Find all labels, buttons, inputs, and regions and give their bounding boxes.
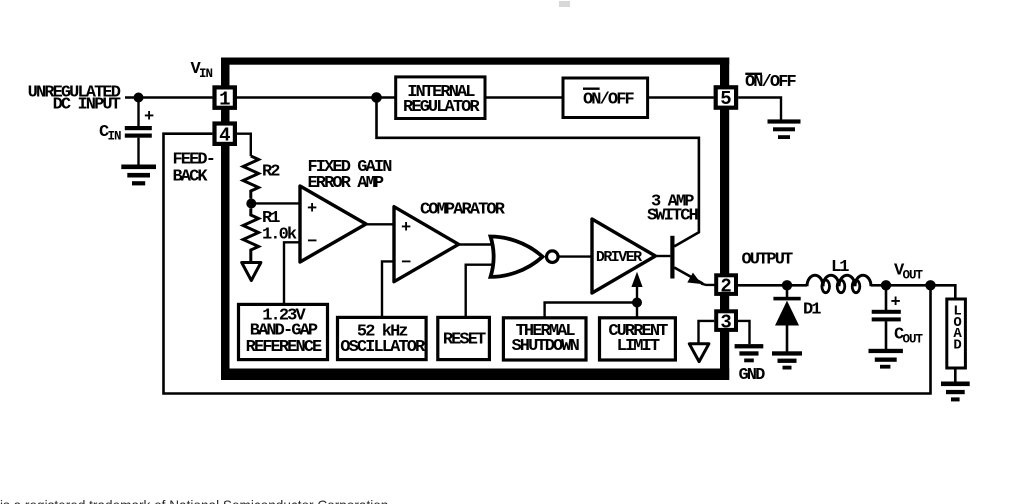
wire: on/off box to pin 5 [648, 96, 714, 98]
transistor Q1 3 amp switch [655, 236, 714, 285]
ground under load [941, 382, 970, 402]
wire: vin feed to switch collector [377, 98, 699, 247]
wire: error amp - input from bandgap [284, 242, 300, 304]
label OUTPUT [742, 250, 794, 269]
wire rail to feedback node [886, 284, 931, 287]
svg-text:2: 2 [720, 275, 731, 297]
bottom cut-off footnote text [0, 498, 388, 504]
ground at pin5 [768, 119, 801, 139]
label ON/OFF (external) [745, 73, 797, 92]
node: cout junction [881, 280, 891, 290]
capacitor CIN [125, 98, 154, 166]
wire: pin1 to internal regulator [237, 96, 396, 98]
resistor R1 [243, 209, 258, 262]
load resistor box [947, 299, 966, 368]
svg-text:COMPARATOR: COMPARATOR [420, 200, 506, 219]
svg-text:OSCILLATOR: OSCILLATOR [340, 338, 426, 357]
label D1 [803, 301, 821, 320]
label L1 [831, 258, 849, 277]
svg-text:REGULATOR: REGULATOR [403, 98, 480, 117]
wire: reset to gate [466, 265, 494, 318]
svg-text:GND: GND [739, 366, 766, 385]
svg-text:RESET: RESET [443, 330, 486, 349]
wire: comparator out to gate [459, 243, 493, 245]
label FIXED GAIN ERROR AMP [308, 158, 393, 193]
label R2 [262, 163, 280, 182]
wire: error amp out to comparator [366, 223, 394, 225]
svg-text:D1: D1 [803, 301, 821, 320]
IC boundary thick border [221, 58, 729, 381]
wire: pin3 to gnd [738, 321, 750, 344]
node: diode junction [782, 280, 792, 290]
pin 5 [714, 85, 739, 110]
wire: feedback loop pin4 around bottom to vout [164, 134, 931, 394]
label VIN [191, 60, 213, 81]
box: 52 kHz OSCILLATOR [338, 317, 427, 359]
ground under D1 [772, 351, 802, 369]
svg-text:DC INPUT: DC INPUT [53, 96, 121, 115]
svg-text:OUTPUT: OUTPUT [742, 250, 794, 269]
svg-text:DRIVER: DRIVER [596, 249, 642, 266]
wire: internal regulator to on/off box [485, 96, 563, 98]
svg-text:5: 5 [720, 88, 731, 110]
wire: pin3 to internal ground arrow [699, 321, 715, 344]
wire: rail to load [931, 285, 956, 299]
capacitor COUT [872, 285, 901, 349]
diode D1 [773, 285, 800, 351]
label 3 AMP SWITCH [647, 192, 699, 225]
driver triangle [592, 219, 655, 293]
svg-text:REFERENCE: REFERENCE [246, 338, 322, 357]
svg-text:R2: R2 [262, 163, 280, 182]
wire: junction to error amp + [251, 202, 300, 204]
box: ON/OFF (internal) [563, 78, 648, 118]
svg-text:LIMIT: LIMIT [617, 337, 660, 356]
pin 3 [714, 309, 738, 333]
wire: load to ground [954, 368, 957, 382]
svg-text:ON/OFF: ON/OFF [583, 90, 635, 109]
node: vin branch junction [371, 92, 382, 103]
label VOUT [894, 262, 924, 283]
op-amp comparator [394, 207, 459, 282]
box: CURRENT LIMIT [600, 318, 676, 360]
svg-text:SHUTDOWN: SHUTDOWN [511, 337, 579, 356]
label GND [739, 366, 766, 385]
wire: unregulated input to pin 1 [125, 96, 212, 98]
box: THERMAL SHUTDOWN [503, 318, 586, 360]
node: R1 R2 junction [246, 199, 256, 209]
svg-text:OUT: OUT [903, 269, 924, 283]
label CIN [99, 123, 121, 144]
wire: output rail [738, 284, 807, 287]
wire: gate out to driver [558, 255, 592, 257]
pin 4 [212, 121, 237, 146]
wire+arrow: current limit into driver [631, 272, 642, 318]
svg-text:IN: IN [108, 130, 122, 144]
svg-text:is a registered trademark of N: is a registered trademark of National Se… [0, 498, 388, 504]
pin 2 [714, 273, 738, 297]
box: INTERNAL REGULATOR [396, 77, 485, 119]
ground under COUT [869, 349, 903, 369]
faint top cut-off mark [559, 1, 570, 7]
svg-text:SWITCH: SWITCH [647, 206, 699, 225]
svg-text:1: 1 [219, 88, 230, 110]
svg-text:ON/OFF: ON/OFF [745, 73, 797, 92]
svg-text:4: 4 [219, 124, 230, 146]
wire: pin5 to external ground [738, 98, 781, 121]
label R1 1.0k [262, 209, 297, 245]
svg-text:ERROR AMP: ERROR AMP [308, 174, 384, 193]
svg-text:3: 3 [720, 311, 731, 333]
ground arrow inside IC [689, 344, 709, 362]
node: feedback junction [925, 280, 935, 290]
resistor R2 [243, 156, 258, 199]
wire: pin4 to R2 [237, 134, 251, 156]
ground arrow under R1 [242, 263, 261, 281]
NOR gate [491, 237, 559, 277]
wire: thermal shutdown connector [545, 303, 637, 318]
node: current limit junction [632, 298, 642, 308]
node: input junction [134, 93, 144, 103]
svg-text:BACK: BACK [173, 167, 209, 186]
pin 1 [212, 85, 237, 110]
label COMPARATOR [420, 200, 506, 219]
box: RESET [438, 317, 490, 359]
svg-text:OUT: OUT [903, 333, 924, 347]
label: UNREGULATED DC INPUT [28, 83, 121, 114]
wire: comparator - input from oscillator [382, 261, 394, 317]
inductor L1 [807, 275, 886, 293]
op-amp error amplifier [300, 186, 366, 262]
label FEED-BACK [173, 151, 215, 187]
label COUT [894, 326, 924, 347]
svg-text:L1: L1 [831, 258, 849, 277]
ground at pin3 [735, 344, 764, 362]
ground under CIN [121, 165, 156, 186]
svg-text:IN: IN [199, 67, 213, 81]
box: 1.23V BAND-GAP REFERENCE [239, 304, 328, 359]
